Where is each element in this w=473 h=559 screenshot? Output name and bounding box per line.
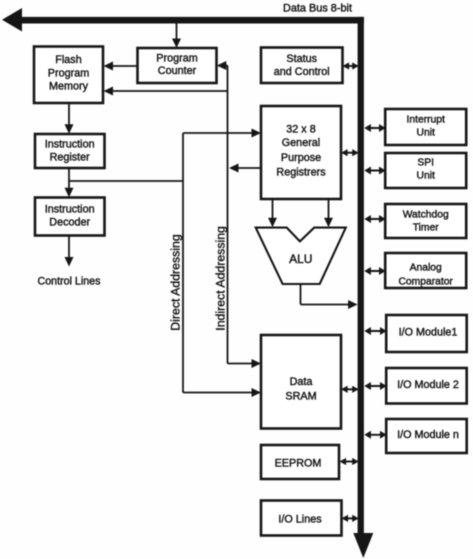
- svg-text:Purpose: Purpose: [281, 152, 321, 164]
- svg-text:Register: Register: [50, 152, 91, 164]
- svg-text:I/O Module1: I/O Module1: [399, 327, 458, 339]
- svg-text:Decoder: Decoder: [49, 217, 90, 229]
- svg-text:Watchdog: Watchdog: [403, 210, 449, 221]
- svg-text:Interrupt: Interrupt: [407, 115, 445, 126]
- svg-text:Unit: Unit: [417, 171, 435, 182]
- svg-text:ALU: ALU: [289, 252, 312, 266]
- svg-text:Analog: Analog: [410, 263, 442, 274]
- svg-text:Instruction: Instruction: [45, 204, 95, 216]
- svg-text:Comparator: Comparator: [399, 277, 454, 288]
- svg-text:Memory: Memory: [49, 80, 89, 92]
- svg-text:Unit: Unit: [417, 128, 435, 139]
- svg-text:Program: Program: [156, 53, 197, 65]
- svg-text:Counter: Counter: [158, 65, 197, 77]
- svg-text:and Control: and Control: [274, 66, 330, 78]
- svg-text:Data Bus 8-bit: Data Bus 8-bit: [283, 3, 352, 15]
- svg-text:Program: Program: [48, 67, 89, 79]
- svg-text:Status: Status: [286, 53, 317, 65]
- svg-text:32 x 8: 32 x 8: [286, 124, 315, 136]
- svg-text:EEPROM: EEPROM: [275, 458, 322, 470]
- svg-text:I/O Lines: I/O Lines: [278, 514, 322, 526]
- svg-text:Instruction: Instruction: [45, 139, 95, 151]
- svg-text:SPI: SPI: [417, 158, 434, 169]
- svg-text:Registrers: Registrers: [276, 167, 326, 179]
- svg-text:Control Lines: Control Lines: [38, 276, 101, 288]
- svg-text:I/O Module 2: I/O Module 2: [397, 379, 459, 391]
- svg-text:Timer: Timer: [413, 223, 439, 234]
- svg-text:Direct Addressing: Direct Addressing: [169, 234, 183, 331]
- svg-text:Flash: Flash: [55, 54, 81, 66]
- svg-text:I/O Module n: I/O Module n: [397, 429, 459, 441]
- svg-text:Indirect Addressing: Indirect Addressing: [214, 226, 228, 331]
- svg-text:SRAM: SRAM: [285, 391, 316, 403]
- svg-text:Data: Data: [290, 376, 313, 388]
- svg-text:General: General: [282, 137, 320, 149]
